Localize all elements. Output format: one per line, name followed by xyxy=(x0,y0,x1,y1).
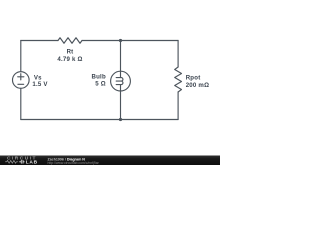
svg-text:LAB: LAB xyxy=(26,159,38,165)
voltage source minus sign xyxy=(18,83,24,85)
voltage source plus sign xyxy=(18,74,24,80)
resistor R2 Rpot zigzag xyxy=(175,67,182,92)
wire bottom segment xyxy=(21,119,178,121)
watermark logo capacitor symbol xyxy=(19,160,24,164)
wire right upper segment xyxy=(177,41,179,68)
lamp filament xyxy=(116,78,123,85)
lamp L1 Bulb circle xyxy=(111,71,131,91)
resistor R1 Rt zigzag xyxy=(58,38,82,44)
svg-text:Bulb: Bulb xyxy=(91,74,105,81)
voltage source V1 Vs circle xyxy=(12,72,29,89)
svg-text:200 mΩ: 200 mΩ xyxy=(186,82,209,89)
wire top-left segment xyxy=(21,40,58,42)
svg-text:1.5 V: 1.5 V xyxy=(32,81,48,88)
wire bulb branch lower xyxy=(120,85,122,120)
wire left upper segment xyxy=(20,41,22,72)
svg-text:Rpot: Rpot xyxy=(186,75,201,82)
svg-text:5 Ω: 5 Ω xyxy=(95,81,106,88)
wire right lower segment xyxy=(177,92,179,120)
watermark logo resistor zigzag xyxy=(5,160,18,163)
wire left lower segment xyxy=(20,88,22,119)
wire top-right segment xyxy=(82,40,178,42)
node junction top xyxy=(119,39,122,42)
svg-text:Rt: Rt xyxy=(67,49,74,56)
wire bulb branch upper xyxy=(120,41,122,78)
svg-text:4.79 k Ω: 4.79 k Ω xyxy=(57,56,82,63)
node junction bottom xyxy=(119,118,122,121)
svg-text:http://www.circuitlab.com/c/nn: http://www.circuitlab.com/c/nnfj9ar xyxy=(48,161,100,165)
